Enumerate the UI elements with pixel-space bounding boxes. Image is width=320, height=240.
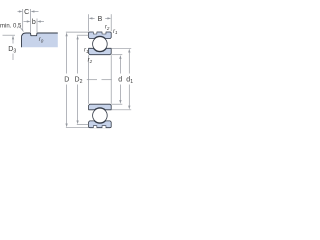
snap ring groove (bottom left) — [93, 126, 97, 129]
svg-text:b: b — [32, 19, 36, 26]
top inner ring — [89, 48, 112, 54]
svg-text:d: d — [118, 77, 122, 84]
face silhouette lines between halves — [89, 55, 112, 103]
bottom inner ring — [89, 104, 112, 110]
d1 dimension — [111, 48, 131, 110]
snap ring groove (bottom right) — [102, 126, 106, 129]
svg-text:r1: r1 — [113, 29, 118, 35]
dimension b — [24, 19, 45, 33]
bottom outer ring — [89, 121, 112, 128]
dimension C — [18, 9, 39, 32]
snap ring groove (top right) — [102, 32, 106, 35]
top outer ring — [89, 32, 112, 39]
svg-text:D3: D3 — [8, 46, 16, 55]
snap ring groove (top left) — [93, 32, 97, 35]
bottom ball — [93, 108, 108, 123]
svg-text:r2: r2 — [88, 57, 93, 64]
d dimension — [111, 55, 122, 104]
svg-text:r2: r2 — [105, 24, 110, 31]
D2 dimension — [77, 35, 89, 124]
D dimension — [66, 32, 89, 128]
outer-ring snap ring groove detail block — [22, 33, 58, 47]
centerline — [87, 79, 97, 81]
svg-text:D2: D2 — [75, 77, 83, 86]
svg-text:B: B — [98, 16, 103, 23]
svg-text:d1: d1 — [126, 77, 133, 86]
B dimension — [89, 14, 112, 31]
svg-text:r1: r1 — [84, 47, 89, 54]
svg-text:min. 0,5: min. 0,5 — [0, 23, 22, 29]
svg-text:C: C — [24, 9, 29, 16]
D3 dimension — [3, 34, 16, 36]
top ball — [93, 37, 108, 52]
svg-text:r0: r0 — [39, 37, 44, 44]
svg-text:D: D — [64, 77, 69, 84]
